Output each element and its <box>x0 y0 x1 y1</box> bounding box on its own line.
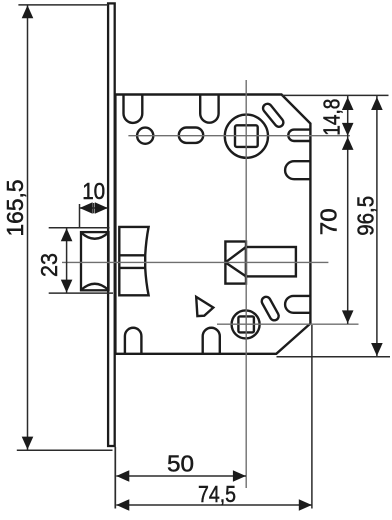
dim line 50 <box>116 475 246 477</box>
vertical centerline <box>245 80 247 488</box>
latch body <box>119 227 148 295</box>
screw hole circle top-left <box>137 128 153 144</box>
latch centerline <box>62 261 328 263</box>
bottom hole centerline <box>217 323 359 325</box>
arrow 14,8 top <box>342 97 354 110</box>
diagonal slot top <box>261 102 285 129</box>
bottom slot U4 <box>203 328 220 354</box>
arrow 165,5 top <box>22 5 34 18</box>
top hole centerline <box>128 135 350 137</box>
dim line 10 <box>80 207 108 209</box>
oval hole <box>179 128 203 143</box>
right slot middle <box>285 161 310 179</box>
arrow 23 bottom <box>61 280 73 293</box>
right slot bottom <box>285 296 310 313</box>
latch band lines <box>119 255 145 268</box>
spindle square <box>235 125 258 147</box>
ext bottom 165,5 <box>17 449 113 451</box>
bottom hole square <box>238 316 254 332</box>
spindle hole circle <box>225 115 268 158</box>
ext bottom edge right <box>277 356 391 358</box>
arrow 96,5 bottom <box>371 343 383 356</box>
arrow 10 right <box>95 202 108 214</box>
ext top 165,5 <box>18 4 108 6</box>
arrow 165,5 bottom <box>22 437 34 450</box>
svg-text:10: 10 <box>82 178 105 204</box>
svg-text:96,5: 96,5 <box>352 196 378 236</box>
dim line 74,5 <box>116 504 311 506</box>
arrow 96,5 top <box>371 97 383 110</box>
svg-text:74,5: 74,5 <box>198 481 236 507</box>
arrow 23 top <box>61 228 73 241</box>
right slot upper <box>288 130 310 141</box>
svg-text:23: 23 <box>36 253 62 277</box>
diagonal slot bottom <box>260 295 280 322</box>
ext nose tip <box>79 204 81 229</box>
arrow 50 right <box>233 470 246 482</box>
ext right edge down <box>311 325 313 509</box>
bottom slot U3 <box>125 328 141 354</box>
dim line 165,5 <box>27 5 29 450</box>
svg-text:14,8: 14,8 <box>319 99 345 136</box>
arrow 70 bottom <box>342 310 354 323</box>
arrow 70 top <box>342 137 354 150</box>
ext 23 bottom <box>49 292 113 294</box>
top slot U2 <box>200 95 218 123</box>
top slot U1 <box>124 95 143 123</box>
follower rect right <box>246 247 296 276</box>
faceplate <box>108 3 115 446</box>
svg-text:165,5: 165,5 <box>2 180 28 237</box>
svg-text:70: 70 <box>316 208 342 235</box>
arrow 74,5 right <box>299 499 312 511</box>
lock body <box>115 95 310 354</box>
follower triangle <box>225 247 246 276</box>
ext top edge right <box>282 94 389 96</box>
ext faceplate down <box>114 447 116 509</box>
dim line 14,8 + 70 <box>347 96 349 324</box>
ext 23 top <box>49 227 110 229</box>
tick mid 10 <box>93 203 95 213</box>
arrow 14,8 bottom <box>342 123 354 136</box>
follower rect left <box>225 242 246 284</box>
arrow 50 left <box>116 470 129 482</box>
arrow 74,5 left <box>116 499 129 511</box>
latch nose <box>81 232 109 290</box>
dim line 23 <box>66 228 68 293</box>
bottom hole circle <box>232 310 260 338</box>
svg-text:50: 50 <box>167 451 194 477</box>
arrow 10 left <box>80 202 93 214</box>
small triangle mark <box>196 297 213 316</box>
dim line 96,5 <box>376 96 378 357</box>
centerlines <box>62 80 359 488</box>
